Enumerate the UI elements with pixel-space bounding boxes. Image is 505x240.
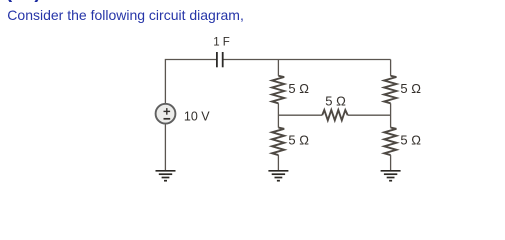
svg-text:5 Ω: 5 Ω [288,81,309,96]
svg-text:5 Ω: 5 Ω [400,81,421,96]
svg-text:1 F: 1 F [213,37,230,49]
svg-text:10 V: 10 V [184,110,210,124]
svg-text:5 Ω: 5 Ω [288,133,309,148]
svg-text:5 Ω: 5 Ω [325,94,346,109]
svg-text:5 Ω: 5 Ω [400,133,421,148]
